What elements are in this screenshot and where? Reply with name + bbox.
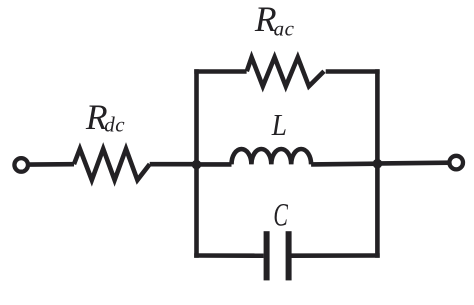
wire <box>194 253 263 258</box>
svg-text:L: L <box>271 107 287 142</box>
inductor L <box>232 149 312 164</box>
wire <box>28 162 74 167</box>
wire <box>311 161 377 166</box>
wire <box>292 253 380 258</box>
terminal left <box>14 158 28 172</box>
wire <box>194 69 246 74</box>
terminal right <box>449 156 463 170</box>
wire <box>377 160 449 165</box>
resistor R_ac <box>247 57 324 86</box>
svg-text:C: C <box>273 197 288 233</box>
wire <box>326 69 380 74</box>
junction node left <box>192 160 202 170</box>
wire <box>197 162 232 167</box>
right vertical wire <box>375 69 380 258</box>
left vertical wire <box>194 69 199 258</box>
svg-text:Rac: Rac <box>254 0 295 41</box>
resistor R_dc <box>74 149 150 180</box>
wire <box>150 162 198 167</box>
junction node right <box>373 159 383 169</box>
svg-text:Rdc: Rdc <box>85 97 125 137</box>
capacitor C plates <box>264 231 270 280</box>
